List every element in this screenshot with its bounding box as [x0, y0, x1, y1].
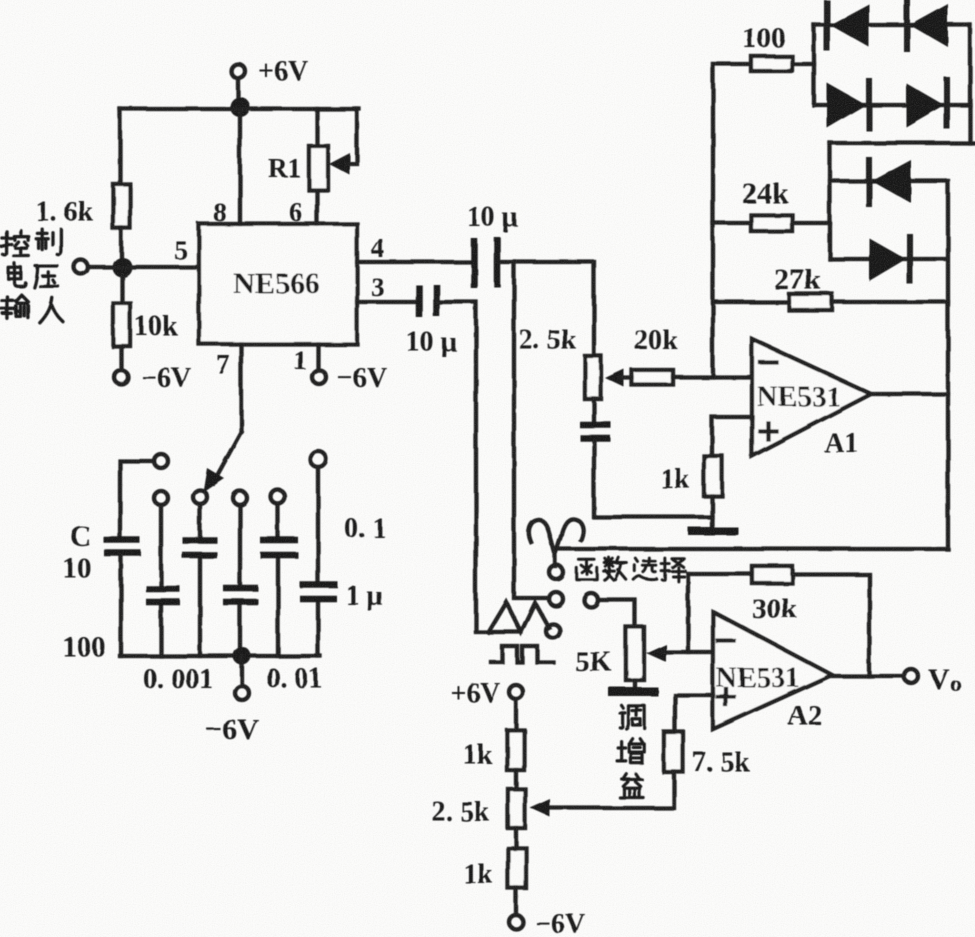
potentiometer 2.5k lower	[432, 789, 525, 828]
capacitor bank cap B	[146, 589, 180, 602]
wire diode box1 left vertical	[812, 25, 816, 105]
wire A2 feedback branch	[686, 574, 690, 652]
wire box1 to box2	[830, 141, 973, 145]
wire A2 output	[832, 674, 904, 678]
wire to 1k upper	[514, 699, 518, 730]
pin 1 wire	[293, 344, 318, 375]
node bus junction	[233, 647, 251, 665]
diode D2	[907, 2, 948, 49]
capacitor bank cap A	[104, 540, 141, 553]
potentiometer R1	[268, 146, 328, 190]
square wave symbol	[491, 646, 553, 662]
wire sine feed horizontal	[557, 547, 948, 551]
potentiometer 5K	[575, 627, 644, 680]
node top bus junction	[230, 97, 250, 117]
terminal selector sine contact	[549, 565, 563, 579]
resistor 7.5k	[664, 732, 750, 778]
capacitor bank cap F	[300, 585, 338, 599]
wire diode row C	[830, 179, 947, 183]
wire diode box2 left vertical	[828, 143, 832, 259]
diode D4	[906, 80, 947, 127]
ground A1	[688, 527, 738, 535]
terminal cap column B contact	[154, 491, 168, 505]
wire 2.5k to 1k lower	[514, 828, 518, 848]
wire bus to -6V	[240, 656, 244, 686]
wire to -6V	[514, 888, 518, 915]
capacitor C 10u pin4	[467, 202, 518, 288]
resistor 27k	[774, 263, 832, 310]
wire bus to 1.6k	[118, 109, 122, 184]
resistor 100	[742, 22, 792, 71]
wire pin3 cap down to triangle contact	[436, 302, 476, 630]
wire diode box1 right vertical	[968, 25, 972, 143]
resistor 1k lower	[463, 848, 526, 890]
terminal 5K switch contact	[584, 593, 598, 607]
wire 10k to -6V	[119, 346, 123, 370]
wire 1k to ground	[710, 496, 714, 528]
wire column E	[276, 504, 280, 656]
wire diode row A	[814, 23, 970, 27]
5K wiper arrow	[646, 644, 666, 662]
wire wiper to A2 inverting input	[662, 650, 713, 654]
label 0.001 0.01	[143, 663, 322, 695]
op IC NE566 U1	[199, 224, 357, 344]
wire cap bank bottom bus	[120, 654, 320, 658]
pin 3 wire	[357, 272, 419, 302]
wire 100 to diode pair 1	[792, 62, 814, 66]
20k wiper arrow to 2.5k pot	[605, 369, 624, 387]
capacitor bank cap D	[223, 588, 258, 602]
ground 5K	[608, 687, 658, 696]
terminal cap column A contact	[154, 454, 168, 468]
wire 7.5k to gain pot	[548, 772, 674, 808]
terminal cap column F contact	[310, 451, 326, 467]
capacitor bank cap C	[182, 540, 217, 555]
label C 10 100	[62, 520, 106, 663]
wire 20k to A1 inverting input	[620, 376, 632, 380]
terminal cap column C contact	[193, 490, 207, 504]
wire 27k	[713, 300, 948, 304]
power terminal +6V	[231, 56, 308, 87]
node control input junction	[112, 257, 132, 277]
wire 5K to ground	[633, 680, 637, 688]
R1 wiper arrow	[329, 109, 357, 175]
wire column C	[198, 504, 202, 656]
wire 1k to 2.5k pot	[514, 770, 518, 789]
terminal -6V divider	[509, 909, 585, 937]
resistor 30k	[752, 566, 798, 625]
wire diode row D	[830, 257, 947, 261]
wire 24k	[713, 221, 830, 225]
terminal control voltage input	[74, 260, 88, 274]
wire column D	[238, 505, 242, 656]
wire diode row B	[814, 103, 970, 107]
label 0.1 and 1u	[344, 513, 386, 612]
terminal -6V cap bank	[205, 686, 259, 746]
wire feedback top	[688, 572, 752, 576]
capacitor under 2.5k pot	[580, 425, 611, 438]
sine wave symbol	[529, 519, 583, 566]
wire input to pin 5	[88, 265, 199, 269]
wire right bus vertical	[946, 181, 950, 549]
wire pot to capacitor	[592, 399, 596, 421]
diode D3	[827, 81, 869, 128]
capacitor bank cap E	[260, 540, 298, 555]
wire node to 10k	[120, 275, 124, 303]
pin 7 wire	[216, 344, 241, 432]
wire cap A to bus	[119, 556, 123, 656]
wire branch to selector	[514, 262, 549, 598]
resistor 24k	[742, 177, 792, 231]
terminal Vo	[904, 663, 962, 696]
wire 1.6k to input node	[119, 228, 123, 262]
pin 6 wire	[289, 190, 317, 227]
triangle wave symbol	[476, 602, 549, 632]
resistor 1k upper	[463, 730, 524, 771]
wire cap down to ground rail	[594, 441, 712, 517]
diode D6	[869, 237, 910, 281]
wire 30k to output	[792, 574, 869, 676]
resistor 10k	[113, 303, 178, 346]
terminal +6V divider	[450, 678, 523, 709]
wire contact to 5K pot	[598, 600, 635, 627]
resistor 20k	[632, 325, 678, 385]
op-amp A2 NE531	[713, 612, 832, 732]
terminal -6V left	[114, 363, 191, 394]
pin 8 wire	[213, 109, 240, 227]
wire pin4 cap to 2.5k pot	[497, 262, 594, 356]
gain wiper arrow	[530, 799, 550, 817]
pin 4 wire	[357, 233, 474, 263]
terminal -6V pin1	[312, 363, 387, 394]
terminal cap column E contact	[271, 490, 285, 504]
terminal cap column D contact	[233, 491, 247, 505]
label 调增益	[618, 705, 645, 797]
potentiometer 2.5k upper	[519, 325, 601, 399]
label 函数选择	[576, 558, 685, 582]
terminal selector triangle contact	[546, 624, 560, 638]
label 控制电压输入	[1, 229, 63, 322]
resistor 1k A1	[660, 456, 722, 496]
wire A2 plus input	[675, 695, 713, 732]
wire node to 100	[713, 62, 751, 66]
op-amp A1 NE531	[752, 339, 871, 459]
wire column F	[316, 467, 320, 656]
wire A1 output	[871, 392, 948, 396]
resistor 1.6k	[36, 184, 130, 228]
wire top bus	[120, 107, 359, 111]
feedback node wire vertical	[711, 64, 715, 377]
diode D1	[827, 3, 869, 48]
selector arrow from pin 7	[203, 432, 241, 492]
wire contact A to cap A	[120, 461, 154, 537]
wire column B	[159, 505, 163, 656]
wire R1 top to bus	[315, 109, 319, 146]
capacitor C 10u pin3	[406, 284, 457, 358]
wire A1 plus input	[712, 417, 752, 456]
terminal selector mid contact	[549, 592, 563, 606]
wire +6V to top bus	[236, 78, 240, 106]
diode D5	[869, 160, 911, 204]
